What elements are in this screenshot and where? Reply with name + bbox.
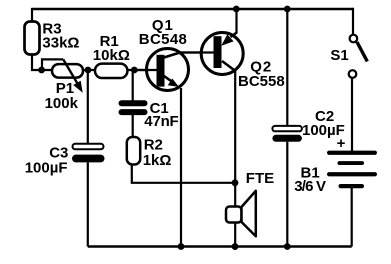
label C2 value: [302, 108, 345, 139]
wire top rail: [32, 8, 354, 10]
svg-text:+: +: [337, 135, 346, 152]
wire S1 to battery: [351, 78, 353, 152]
label C3 value: [25, 145, 69, 177]
wire Q2 emitter to top rail: [235, 9, 237, 33]
resistor R2: [127, 137, 140, 165]
svg-text:100µF: 100µF: [25, 160, 68, 177]
wire C3 down to bottom rail: [87, 162, 89, 246]
transistor Q1: [134, 49, 189, 91]
capacitor C1: [119, 100, 148, 115]
wire Q2 collector down to speaker: [234, 71, 236, 251]
node B junction dot: [85, 67, 92, 74]
label FTE: [246, 170, 274, 187]
junction dot Q2 emitter top: [233, 6, 240, 13]
junction dot bottom speaker: [232, 243, 239, 250]
speaker FTE: [226, 191, 256, 237]
svg-text:BC558: BC558: [238, 73, 285, 90]
label C1 value: [144, 100, 178, 130]
svg-text:47nF: 47nF: [144, 113, 178, 130]
wire bottom rail: [88, 245, 352, 247]
wire top rail right drop to S1: [352, 8, 354, 35]
wire R3 top stub: [31, 8, 33, 22]
svg-text:33kΩ: 33kΩ: [42, 35, 79, 52]
svg-text:FTE: FTE: [246, 170, 274, 187]
wire P1 to R1: [83, 69, 96, 71]
svg-text:S1: S1: [330, 47, 348, 64]
wire Q1 collector to Q2 base: [180, 51, 214, 53]
wire R3 bottom to node A: [32, 55, 53, 71]
wire battery to bottom rail: [351, 188, 353, 247]
label Q1 type: [139, 17, 187, 48]
resistor R3: [25, 22, 40, 55]
wire P1 wiper link: [42, 59, 63, 70]
potentiometer P1: [52, 59, 83, 91]
svg-text:R2: R2: [144, 137, 163, 154]
wire C2 branch top: [286, 9, 288, 127]
svg-text:BC548: BC548: [139, 31, 187, 48]
label R2 value: [143, 137, 172, 170]
capacitor C2: [272, 126, 302, 142]
resistor R1: [95, 64, 127, 78]
junction dot C2 top: [284, 6, 291, 13]
junction dot bottom C2: [284, 243, 291, 250]
label P1 value: [45, 80, 79, 112]
node D junction dot: [232, 179, 239, 186]
label S1: [330, 47, 348, 64]
wire node C down to C1: [132, 70, 134, 101]
battery B1: [327, 151, 377, 189]
svg-text:100k: 100k: [45, 95, 79, 112]
wire C2 bottom to rail: [286, 142, 288, 247]
wire Q1 emitter down to bottom rail: [180, 88, 182, 247]
battery B1 plus sign: [337, 135, 346, 152]
svg-text:10kΩ: 10kΩ: [93, 47, 130, 64]
label R1 value: [93, 33, 130, 64]
switch S1: [349, 35, 368, 78]
wire node B down to C3: [87, 70, 89, 145]
svg-text:1kΩ: 1kΩ: [143, 152, 172, 169]
label Q2 type: [238, 59, 285, 91]
junction dot bottom Q1 emitter: [178, 243, 185, 250]
capacitor C3: [72, 144, 105, 163]
svg-text:3/6 V: 3/6 V: [294, 178, 326, 195]
transistor Q2: [180, 32, 243, 74]
wire C1 to R2: [132, 115, 134, 138]
label R3 value: [42, 21, 79, 52]
label B1 value: [294, 165, 326, 196]
wire R1 to Q1 base: [128, 69, 158, 71]
node A junction dot: [38, 67, 45, 74]
wire R2 bottom to node D: [132, 165, 235, 183]
node C junction dot: [131, 67, 138, 74]
